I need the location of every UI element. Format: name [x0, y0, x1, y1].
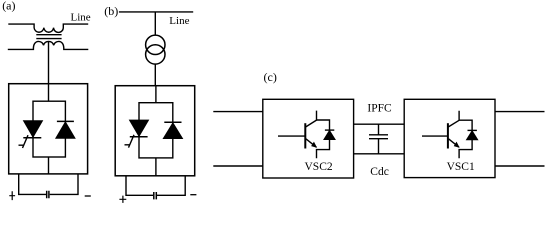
svg-text:VSC2: VSC2 — [305, 161, 333, 173]
svg-text:IPFC: IPFC — [367, 103, 392, 115]
svg-text:VSC1: VSC1 — [447, 161, 475, 173]
svg-text:Line: Line — [169, 15, 189, 27]
svg-text:(c): (c) — [264, 70, 277, 84]
svg-text:(a): (a) — [2, 0, 15, 13]
svg-text:(b): (b) — [104, 4, 118, 18]
svg-text:Line: Line — [71, 12, 91, 24]
svg-text:Cdc: Cdc — [370, 166, 389, 178]
